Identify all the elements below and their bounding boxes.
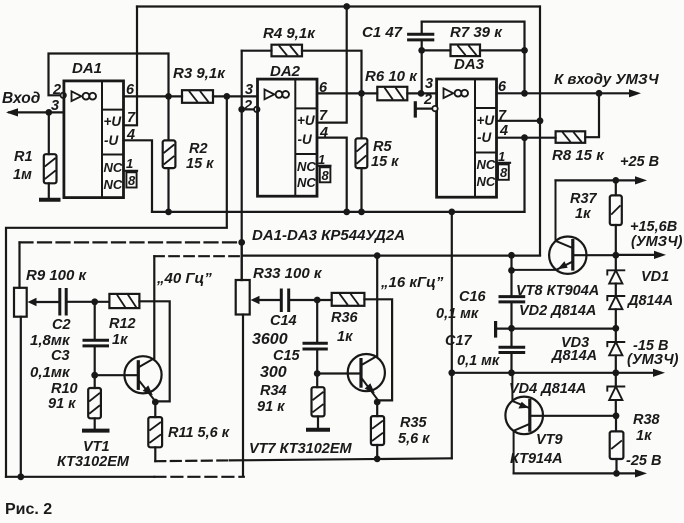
wire R37 bottom	[615, 225, 617, 255]
node VT8 base / zeners / R37	[612, 252, 619, 259]
diode VD4	[607, 387, 624, 401]
svg-text:R10: R10	[51, 381, 78, 397]
svg-text:R2: R2	[189, 141, 208, 157]
capacitor C2	[60, 290, 66, 315]
wire R12 right to emitter	[139, 301, 169, 401]
node R7/C1 right	[521, 47, 528, 54]
wire R2 top	[167, 96, 169, 140]
wire collector feed dashed	[154, 255, 242, 257]
svg-text:5,6 к: 5,6 к	[398, 431, 430, 447]
op-amp DA1 box	[64, 81, 124, 198]
svg-text:R35: R35	[400, 415, 428, 431]
wiper arrow R9	[28, 298, 37, 307]
svg-text:NC: NC	[104, 160, 123, 175]
op-amp DA2 box	[258, 79, 318, 196]
svg-text:91 к: 91 к	[257, 399, 285, 415]
wire DA3 pin4 to R8	[497, 137, 556, 139]
wire VT1 collector up	[153, 256, 155, 358]
svg-text:8: 8	[128, 173, 136, 188]
wire DA2 feedback column x241.7	[241, 51, 243, 280]
svg-text:C17: C17	[445, 333, 473, 349]
svg-text:2: 2	[52, 82, 61, 98]
svg-text:R12: R12	[109, 316, 136, 332]
wire VT7 collector up	[376, 256, 378, 357]
wire emitter return line to -15	[230, 458, 452, 460]
node C2/C3/R12	[91, 298, 98, 305]
node C16 / zener mid	[508, 325, 515, 332]
wire bottom rail dashed	[154, 476, 243, 478]
wiper arrow R33	[251, 296, 260, 305]
svg-text:(УМЗЧ): (УМЗЧ)	[631, 234, 683, 250]
node R37 top	[612, 177, 619, 184]
svg-text:3600: 3600	[252, 331, 288, 348]
svg-text:4: 4	[499, 123, 508, 139]
wire R10 top	[94, 375, 96, 388]
wire VT8 collector	[556, 180, 572, 247]
ground R34	[308, 428, 328, 432]
svg-text:0,1 мк: 0,1 мк	[436, 306, 479, 322]
wire collector feed solid to +15.6	[242, 255, 540, 257]
wire R8 right up to output	[585, 93, 599, 137]
wire C16 bottom	[510, 302, 512, 328]
wire DA1 +U drop x137	[124, 7, 138, 126]
svg-text:R33 100 к: R33 100 к	[253, 265, 323, 282]
svg-text:R6 10 к: R6 10 к	[365, 68, 418, 85]
arrow input left	[6, 108, 18, 116]
node -15 / column	[448, 369, 455, 376]
svg-text:R38: R38	[633, 412, 661, 428]
node -U rail / -15 column	[448, 209, 455, 216]
node VT1 emitter	[152, 399, 159, 406]
resistor R5	[356, 138, 368, 168]
wire R36 right to emitter	[364, 299, 392, 400]
pin1 stub DA1 + 8 box	[124, 170, 138, 172]
wire R38 top	[615, 416, 617, 432]
svg-text:Рис. 2: Рис. 2	[5, 501, 52, 518]
resistor R37	[610, 195, 622, 225]
node R7/C1 left	[418, 47, 425, 54]
pin 2 open circle DA2	[254, 107, 259, 112]
node DA2 out / R4 / R5	[358, 90, 365, 97]
wire R4 left	[242, 50, 272, 52]
svg-text:„16 кГц”: „16 кГц”	[380, 274, 444, 291]
node output / node B	[521, 90, 528, 97]
wire VT7 base	[317, 372, 359, 374]
wire R5 top	[360, 93, 362, 138]
svg-text:-U: -U	[477, 130, 492, 145]
pin1 stub DA2 + 8 box	[317, 165, 330, 167]
resistor R10	[88, 388, 101, 418]
resistor R2	[163, 140, 176, 168]
ground bar DA3 pin2	[414, 103, 417, 116]
svg-text:-U: -U	[298, 132, 313, 147]
potentiometer R9	[14, 288, 27, 317]
wire R5 bottom	[360, 168, 362, 212]
svg-text:+U: +U	[477, 113, 496, 128]
wire +15.6V arrow	[616, 254, 656, 256]
pin1 stub DA3 + 8 box	[497, 162, 511, 164]
node R5 / -U rail	[358, 209, 365, 216]
svg-text:DA2: DA2	[270, 63, 301, 80]
op-amp DA3 box	[437, 79, 497, 197]
wire VT9 emitter from -15 rail	[512, 373, 528, 408]
svg-text:1м: 1м	[13, 167, 32, 183]
svg-text:R36: R36	[331, 310, 359, 326]
node +15.6 feed	[508, 252, 515, 259]
resistor R36	[332, 293, 365, 306]
transistor VT9	[505, 397, 543, 435]
svg-text:VT8 КТ904А: VT8 КТ904А	[516, 283, 599, 299]
node VT9 base / R38	[613, 412, 620, 419]
svg-text:NC: NC	[297, 159, 316, 174]
wire R11 bottom dashed link	[154, 447, 156, 461]
node DA2 pin2	[238, 106, 245, 113]
wire R37 top	[615, 180, 617, 195]
node C15/R34/base	[314, 370, 321, 377]
capacitor C17	[510, 328, 512, 347]
resistor R12	[109, 294, 139, 308]
svg-text:Д814А: Д814А	[626, 293, 673, 309]
diode VD1	[607, 270, 624, 283]
resistor R1	[44, 154, 57, 183]
svg-text:300: 300	[260, 364, 287, 381]
svg-text:NC: NC	[477, 157, 496, 172]
wire VT9 collector	[514, 424, 530, 474]
wire +U column x540	[539, 7, 541, 255]
node DA1 out / R2 / loop	[165, 93, 172, 100]
wire top +U rail	[137, 5, 540, 7]
wire R2 bottom	[167, 168, 169, 212]
svg-text:VT1: VT1	[83, 439, 110, 455]
svg-text:8: 8	[322, 168, 330, 183]
wire DA2 pin2 stub	[242, 108, 255, 110]
wire R1 bottom	[48, 183, 50, 198]
svg-text:3: 3	[51, 98, 59, 114]
wire R11 top	[154, 402, 156, 417]
node R35 bottom	[374, 456, 381, 463]
svg-text:VT9: VT9	[536, 432, 563, 448]
ground R10	[84, 429, 108, 433]
node R2 / -U rail	[165, 209, 172, 216]
resistor R34	[312, 387, 325, 416]
wire VT9 base	[530, 415, 616, 417]
svg-text:C14: C14	[270, 313, 297, 329]
wire dashed link R9 top to DA2 pin2	[18, 242, 20, 287]
diode VD3	[607, 342, 624, 355]
svg-text:DA1: DA1	[72, 60, 102, 77]
wire zener midpoint line	[497, 328, 616, 330]
wire R7 right	[480, 49, 525, 51]
svg-text:Д814А: Д814А	[550, 348, 597, 364]
wire pin4 down to -U rail	[523, 138, 525, 212]
svg-text:7: 7	[127, 110, 136, 126]
wire R6 to DA3	[407, 92, 436, 94]
node C14/C15/R36	[314, 297, 321, 304]
svg-text:NC: NC	[104, 177, 123, 192]
svg-text:15 к: 15 к	[371, 154, 399, 170]
transistor VT8	[549, 237, 586, 274]
node emitter wire	[508, 267, 515, 274]
node module link R33	[238, 239, 245, 246]
svg-text:7: 7	[319, 108, 328, 124]
wire VT1 base	[95, 374, 137, 376]
svg-text:R11 5,6 к: R11 5,6 к	[168, 425, 230, 441]
capacitor C16	[500, 297, 524, 302]
svg-text:+25 В: +25 В	[620, 154, 659, 170]
svg-text:2: 2	[243, 98, 252, 114]
capacitor C15	[304, 343, 326, 349]
wire R4 right	[302, 51, 362, 94]
wire bottom rail solid	[6, 476, 154, 478]
wire VT8 base right to zener stack	[573, 254, 616, 256]
svg-text:4: 4	[126, 127, 135, 143]
svg-text:1: 1	[318, 152, 325, 167]
wire R9 bottom	[20, 317, 22, 477]
svg-text:„40 Гц”: „40 Гц”	[156, 270, 212, 287]
wire R35 bottom	[376, 445, 378, 459]
wire R34 top	[316, 374, 318, 388]
wire C2 to node	[66, 301, 109, 303]
svg-text:-25 В: -25 В	[626, 453, 661, 469]
svg-text:4: 4	[319, 125, 328, 141]
svg-text:R4 9,1к: R4 9,1к	[263, 25, 316, 42]
svg-text:К входу УМЗЧ: К входу УМЗЧ	[554, 71, 659, 88]
svg-text:NC: NC	[477, 174, 496, 189]
zener stack wire	[615, 255, 617, 416]
node R38 / -25 rail	[613, 470, 620, 477]
svg-text:R37: R37	[570, 191, 598, 207]
svg-text:VT7 КТ3102ЕМ: VT7 КТ3102ЕМ	[249, 441, 352, 457]
svg-text:R34: R34	[260, 383, 287, 399]
svg-text:1к: 1к	[636, 428, 652, 444]
svg-text:1к: 1к	[112, 332, 128, 348]
resistor R6	[377, 87, 407, 101]
svg-text:DA3: DA3	[454, 56, 485, 73]
svg-text:VD4 Д814А: VD4 Д814А	[509, 381, 586, 397]
pin 2 open circle DA1	[61, 93, 66, 98]
wire DA2 output	[317, 92, 377, 94]
wire node B down to output	[523, 50, 525, 93]
wire C14 to node	[289, 299, 332, 301]
svg-text:2: 2	[423, 92, 432, 108]
svg-text:91 к: 91 к	[48, 396, 76, 412]
wire DA2 -U pin4	[317, 138, 347, 212]
resistor R8	[556, 131, 586, 143]
wire node A down to pin3	[421, 50, 423, 93]
wire R1 top	[48, 112, 50, 154]
node DA2 pin4 / -U rail	[343, 209, 350, 216]
svg-text:3: 3	[245, 82, 253, 98]
svg-text:VD2 Д814А: VD2 Д814А	[519, 303, 596, 319]
wire +15.6 drop to emitter/C16	[510, 255, 512, 296]
svg-text:1к: 1к	[337, 329, 353, 345]
svg-text:6: 6	[319, 80, 328, 96]
svg-text:DA1-DA3 КР544УД2А: DA1-DA3 КР544УД2А	[252, 227, 405, 244]
svg-text:1,8мк: 1,8мк	[30, 332, 71, 349]
svg-text:6: 6	[126, 82, 135, 98]
svg-text:R3 9,1к: R3 9,1к	[173, 65, 226, 82]
wire R38 bottom	[615, 459, 617, 473]
node pin7/+U	[537, 117, 544, 124]
potentiometer R33	[236, 280, 250, 315]
resistor R7	[451, 45, 481, 57]
node VT7 collector feed	[374, 252, 381, 259]
node R9 bottom	[17, 473, 24, 480]
capacitor C3	[84, 340, 108, 346]
diode VD2	[607, 296, 624, 309]
node output / R8	[596, 90, 603, 97]
svg-text:КТ3102ЕМ: КТ3102ЕМ	[57, 454, 130, 470]
wire R7 left	[422, 49, 451, 51]
wire -15 column x451.8	[451, 212, 453, 459]
node R3/DA2 input	[223, 93, 230, 100]
ground bar midpoint	[494, 323, 497, 336]
svg-text:+U: +U	[297, 113, 316, 128]
wire R33 bottom	[242, 315, 244, 477]
wire DA1 feedback loop pin2 to output	[49, 54, 169, 97]
node junction top rail to DA2 +U	[343, 3, 350, 10]
node input / R1	[45, 109, 52, 116]
resistor R4	[272, 45, 303, 57]
wire -25V rail	[514, 472, 637, 474]
svg-text:3: 3	[425, 76, 433, 92]
wire C3 column	[94, 302, 96, 341]
transistor VT1	[124, 356, 161, 393]
wire C15 column	[316, 300, 318, 343]
node zener mid stack	[612, 325, 619, 332]
wire C1 top loop	[422, 22, 525, 51]
resistor R3	[182, 90, 213, 103]
svg-text:0,1 мк: 0,1 мк	[457, 353, 500, 369]
wire +25V rail	[556, 179, 638, 181]
node -15 / zener stack	[612, 369, 619, 376]
wire DA2 +U pin7	[317, 7, 347, 123]
svg-text:15 к: 15 к	[186, 156, 214, 172]
svg-text:1к: 1к	[575, 206, 591, 222]
wire -U rail	[152, 211, 525, 213]
wire DA2 input module link x226.8	[6, 96, 227, 476]
svg-text:R5: R5	[373, 139, 392, 155]
svg-text:C3: C3	[51, 348, 70, 364]
wire R35 top	[376, 402, 378, 416]
wire Вход input line	[9, 111, 64, 113]
wire DA1 output to R3	[124, 95, 183, 97]
op-amp DA2 symbol	[265, 90, 275, 100]
capacitor C1	[421, 22, 423, 51]
svg-text:C1 47: C1 47	[362, 24, 403, 41]
svg-text:R9 100 к: R9 100 к	[26, 267, 88, 284]
wire DA3 output К входу УМЗЧ	[497, 92, 631, 94]
resistor R11	[148, 417, 162, 447]
svg-text:R7 39 к: R7 39 к	[450, 24, 503, 41]
op-amp DA1 symbol	[72, 91, 82, 101]
svg-text:R8 15 к: R8 15 к	[552, 147, 605, 164]
svg-text:Вход: Вход	[2, 90, 41, 107]
svg-text:VD1: VD1	[641, 269, 669, 285]
wire DA3 pin2 grounded	[415, 107, 433, 109]
wire R10 bottom	[94, 418, 96, 429]
node VT7 emitter	[374, 399, 381, 406]
resistor R38	[610, 431, 624, 459]
svg-text:+15,6В: +15,6В	[630, 219, 677, 235]
svg-text:C2: C2	[52, 317, 71, 333]
svg-text:C15: C15	[273, 348, 301, 364]
wire DA3 +U pin7	[497, 120, 541, 122]
svg-text:8: 8	[500, 165, 508, 180]
svg-text:C16: C16	[459, 289, 487, 305]
capacitor C14	[281, 290, 288, 311]
wire R33 top from pin2 column	[241, 242, 243, 280]
wire DA1 -U pin4	[124, 140, 153, 212]
node -15 / C17	[508, 369, 515, 376]
svg-text:1: 1	[498, 149, 505, 164]
node pin4 / -U	[521, 134, 528, 141]
svg-text:NC: NC	[297, 175, 316, 190]
wire R3 to DA2 pin3	[213, 95, 258, 97]
wire R34 bottom	[317, 416, 319, 428]
ground R1	[41, 198, 59, 202]
svg-text:(УМЗЧ): (УМЗЧ)	[627, 352, 679, 368]
svg-text:0,1мк: 0,1мк	[30, 364, 71, 381]
wire -15V rail	[452, 372, 655, 374]
node DA3 pin3 / C1R7	[418, 90, 425, 97]
svg-text:-U: -U	[104, 133, 119, 148]
op-amp DA3 symbol	[444, 88, 454, 98]
svg-text:R1: R1	[14, 149, 33, 165]
transistor VT7	[348, 354, 385, 391]
node C3/R10/base	[91, 372, 98, 379]
svg-text:7: 7	[498, 108, 507, 124]
svg-text:1: 1	[126, 156, 133, 171]
svg-text:КТ914А: КТ914А	[510, 451, 563, 467]
resistor R35	[371, 416, 384, 445]
svg-text:+U: +U	[104, 114, 123, 129]
svg-text:6: 6	[498, 79, 507, 95]
wire VT8 emitter	[512, 262, 573, 270]
